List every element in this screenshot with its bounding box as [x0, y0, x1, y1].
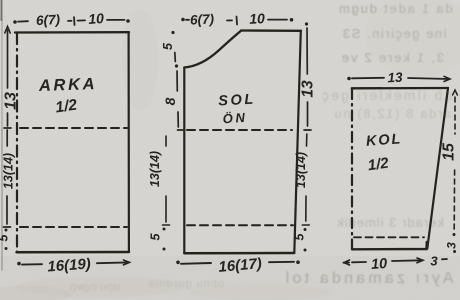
SOL ÖN waist dashed line: [187, 129, 292, 131]
KOL bottom dim right arrowhead: [417, 258, 423, 263]
SOL ÖN bottom dim line right segment: [269, 261, 294, 263]
svg-text:SOL: SOL: [218, 92, 256, 110]
SOL ÖN right dim line segment below 13: [307, 102, 309, 126]
SOL ÖN left dim tick at waist line: [178, 129, 185, 131]
SOL ÖN top dim line segment c: [268, 19, 287, 21]
svg-text:5: 5: [293, 232, 307, 240]
KOL bottom dim line right segment: [392, 259, 422, 262]
scan edge segment bottom: [1, 130, 3, 270]
KOL bottom dim left stub: [344, 262, 350, 264]
svg-text:13: 13: [3, 92, 20, 110]
svg-text:13: 13: [300, 80, 317, 98]
SOL ÖN left dim tick at hem line: [163, 224, 170, 226]
SOL ÖN top dim line segment b: [227, 19, 232, 21]
svg-text:8: 8: [162, 97, 178, 105]
svg-text:16(19): 16(19): [47, 256, 91, 276]
KOL top dim right arrowhead: [444, 76, 450, 81]
svg-text:3: 3: [430, 254, 438, 269]
SOL ÖN bottom dimension 16(17): [176, 260, 300, 264]
svg-text:uçru ingeçi: uçru ingeçi: [70, 281, 121, 293]
ARKA bottom dimension 16(19): [17, 260, 129, 265]
ARKA left dim dot above 5: [5, 229, 8, 232]
SOL ÖN left edge: [183, 68, 185, 254]
ARKA bottom dim left end dot: [17, 262, 21, 266]
SOL ÖN bottom dim left end dot: [176, 261, 180, 265]
ARKA left dim dot below 5: [5, 247, 8, 250]
svg-text:1/2: 1/2: [54, 97, 78, 117]
SOL ÖN left dim line segment above 13(14): [165, 136, 167, 146]
SOL ÖN neckline curve: [184, 31, 241, 68]
KOL right slanted edge: [427, 88, 448, 249]
ARKA top dim right end dot: [126, 19, 130, 23]
SOL ÖN left dim dot above 5: [163, 228, 166, 231]
ARKA outline top edge: [15, 31, 129, 34]
svg-text:13(14): 13(14): [148, 151, 162, 187]
svg-text:13(14): 13(14): [294, 152, 308, 188]
KOL top edge: [352, 87, 448, 90]
KOL right dim dot below 3: [453, 250, 456, 253]
SOL ÖN right dim line segment above 13: [306, 28, 308, 74]
SOL ÖN bottom dim line left segment: [181, 262, 211, 265]
ARKA hem dashed line: [20, 226, 127, 228]
ARKA left dim line segment below 13: [7, 113, 9, 126]
SOL ÖN left dim line segment below 13(14): [165, 196, 167, 222]
SOL ÖN right edge: [294, 31, 301, 253]
svg-text:5: 5: [161, 42, 175, 50]
SOL ÖN right dim top dot: [305, 22, 308, 25]
ARKA bottom dim line right segment: [97, 261, 128, 264]
svg-text:ab ilmekleri geç: ab ilmekleri geç: [320, 87, 452, 103]
SOL ÖN left dim line segment below 8: [177, 112, 179, 127]
scan edge line left: [1, 0, 4, 270]
SOL ÖN top dim left end dot: [181, 18, 185, 22]
svg-text:10: 10: [88, 10, 105, 27]
SOL ÖN left dim dot below neck 5: [175, 64, 178, 67]
ARKA left dimension 13 / 13(14) / 5: [4, 27, 12, 251]
SOL ÖN top dimension 6(7)+10: [181, 17, 293, 25]
SOL ÖN right dimension 13 / 13(14) / 5: [302, 22, 311, 251]
svg-text:5: 5: [149, 232, 163, 240]
ARKA top dim line segment d: [107, 19, 125, 21]
SOL ÖN bottom dim right end dot: [296, 260, 300, 264]
SOL ÖN right dim line segment above 13(14): [306, 134, 308, 146]
svg-text:ÖN: ÖN: [222, 110, 248, 127]
SOL ÖN top dim right end dot: [290, 18, 294, 22]
SOL ÖN right dim line segment below 13(14): [305, 196, 307, 221]
SOL ÖN top dim tick at 6(7)/10 boundary: [236, 17, 239, 25]
svg-text:13: 13: [387, 70, 403, 86]
ARKA outline bottom edge: [17, 251, 130, 254]
ARKA left dim line segment below 13(14): [6, 196, 8, 224]
ARKA top dim line segment c: [78, 19, 86, 21]
ARKA top dimension 6(7)+10: [13, 17, 130, 25]
KOL bottom edge: [352, 242, 427, 249]
KOL right dim dotted segment above 15: [454, 97, 456, 134]
ARKA bottom dim line left segment: [22, 263, 42, 265]
ARKA left dim line upper segment: [7, 30, 9, 88]
ARKA top dim left end dot: [13, 20, 17, 24]
svg-text:Ayrı zamanda tol: Ayrı zamanda tol: [283, 270, 454, 287]
SOL ÖN top edge: [241, 29, 301, 32]
ARKA top dim line segment b: [68, 20, 72, 22]
ARKA left dim up arrowhead: [5, 27, 10, 34]
svg-text:arda 8 (12,8) nu: arda 8 (12,8) nu: [333, 106, 451, 121]
ARKA bottom dim right arrowhead: [124, 260, 130, 265]
SOL ÖN bottom edge: [184, 252, 294, 255]
svg-text:KOL: KOL: [366, 131, 403, 149]
KOL right dim up arrowhead: [453, 90, 458, 95]
SOL ÖN left dim line segment above 8: [176, 71, 178, 91]
scan edge segment middle: [1, 20, 3, 130]
SOL ÖN right dim tick at hem line: [302, 224, 309, 226]
ARKA left dim line segment above 13(14): [6, 130, 8, 146]
SOL ÖN left dim dot above neck 5: [171, 31, 174, 34]
KOL bottom dim dash right of 3: [442, 258, 447, 260]
SOL ÖN right dim dot above 5: [304, 228, 307, 231]
paper shading bottom band: [0, 256, 460, 300]
svg-text:10: 10: [370, 256, 387, 273]
KOL right dim dotted segment below 15: [453, 170, 455, 230]
KOL top dim line left segment: [352, 77, 384, 80]
KOL fold line (dash-dot left edge): [351, 89, 353, 249]
ARKA top dim line segment a: [18, 20, 28, 22]
ARKA fold line (dash-dot left edge): [16, 33, 18, 252]
svg-text:15: 15: [441, 142, 458, 161]
svg-text:6(7): 6(7): [36, 12, 61, 28]
ARKA outline right edge: [128, 32, 130, 252]
KOL top dim left end dot: [347, 77, 351, 81]
ghost show-through text (mirrored): [148, 1, 454, 290]
KOL bottom dimension 10 / 3: [344, 258, 448, 265]
SOL ÖN top dim line segment a: [186, 19, 189, 21]
svg-text:10: 10: [249, 10, 266, 27]
svg-text:3: 3: [445, 242, 459, 249]
ARKA top dim tick at 6(7)/10 boundary: [73, 17, 76, 25]
svg-text:5: 5: [0, 233, 11, 241]
ARKA waist dashed line: [20, 127, 127, 129]
ARKA left dim tick at waist line: [4, 127, 11, 129]
KOL top dimension 13: [347, 76, 450, 81]
SOL ÖN left dim dot below 5: [163, 248, 166, 251]
svg-text:13(14): 13(14): [2, 153, 16, 189]
KOL bottom dim line left segment: [352, 261, 366, 263]
svg-text:1/2: 1/2: [367, 155, 391, 175]
SOL ÖN left dimension 5 / 8 / 13(14) / 5: [163, 31, 185, 251]
SOL ÖN hem dashed line: [187, 224, 293, 226]
SOL ÖN right dim dot below 5: [304, 249, 307, 252]
SOL ÖN left dim short segment at neck: [174, 53, 177, 62]
KOL top dim line right segment: [408, 78, 449, 79]
svg-text:6(7): 6(7): [190, 11, 215, 27]
KOL bottom dim left arrowhead: [344, 260, 350, 265]
KOL cuff dashed line: [354, 236, 424, 238]
KOL right dimension 15 / 3: [453, 90, 458, 253]
scan edge segment top: [1, 0, 3, 20]
SOL ÖN right dim tick at waist line: [304, 129, 311, 131]
ARKA left dim tick at hem line: [4, 226, 11, 228]
svg-text:ARKA: ARKA: [38, 75, 98, 95]
KOL right dim dot above 3: [453, 233, 456, 236]
